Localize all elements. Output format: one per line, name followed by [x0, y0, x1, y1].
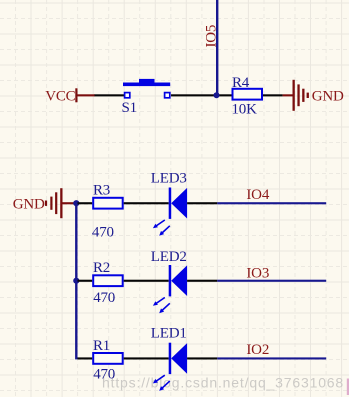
svg-text:IO2: IO2	[246, 342, 269, 358]
switch S1	[122, 79, 171, 116]
LED1 light arrows	[156, 375, 170, 388]
resistor R3	[92, 183, 123, 241]
svg-text:S1: S1	[122, 100, 137, 116]
wire LED1 right pin	[187, 357, 217, 359]
net label IO5	[203, 25, 219, 48]
net label IO3	[246, 266, 269, 282]
svg-text:GND: GND	[312, 88, 344, 104]
LED2	[151, 249, 187, 296]
power port GND right	[283, 80, 344, 111]
svg-text:IO3: IO3	[246, 266, 269, 282]
wire S1 to R4	[171, 94, 232, 96]
wire R4 to GND	[263, 94, 283, 96]
svg-text:470: 470	[92, 225, 114, 241]
svg-text:GND: GND	[13, 197, 45, 213]
wire LED3 right pin	[187, 202, 217, 204]
LED3	[151, 171, 187, 219]
resistor R4	[232, 75, 263, 118]
wire bus to R3	[78, 202, 93, 204]
wire LED2 right pin	[187, 280, 217, 282]
svg-text:VCC: VCC	[45, 88, 75, 104]
wire IO5 vertical	[216, 0, 218, 95]
wire bus to R1	[78, 357, 93, 359]
wire net IO3	[217, 280, 326, 282]
wire VCC to S1	[95, 94, 125, 96]
resistor R2	[93, 260, 123, 306]
junction row 1	[73, 200, 79, 206]
svg-text:LED3: LED3	[151, 171, 187, 187]
LED2 light arrows	[156, 298, 170, 311]
svg-text:10K: 10K	[232, 101, 258, 117]
watermark pink mark bottom-right	[347, 379, 349, 396]
net label IO2	[246, 342, 269, 358]
svg-text:R3: R3	[93, 183, 110, 199]
wire bus to R2	[78, 280, 93, 282]
svg-text:https://blog.csdn.net/qq_37631: https://blog.csdn.net/qq_37631068	[102, 375, 343, 391]
resistor R1	[93, 338, 123, 383]
wire R2 to LED2	[124, 280, 169, 282]
wire net IO2	[217, 357, 326, 359]
watermark text	[102, 375, 343, 391]
wire GND bus vertical	[75, 202, 77, 359]
wire R3 to LED3	[124, 202, 169, 204]
LED1	[151, 326, 187, 375]
power port VCC	[45, 88, 95, 104]
svg-text:R4: R4	[232, 75, 250, 91]
LED3 light arrows	[156, 220, 170, 233]
svg-text:LED1: LED1	[151, 326, 187, 342]
power port GND left	[13, 188, 77, 218]
svg-text:R1: R1	[93, 338, 110, 354]
svg-text:IO4: IO4	[246, 187, 269, 203]
svg-text:LED2: LED2	[151, 249, 187, 265]
net label IO4	[246, 187, 269, 203]
svg-text:IO5: IO5	[203, 25, 219, 48]
svg-text:470: 470	[93, 366, 115, 382]
junction at IO5	[214, 92, 220, 98]
wire R1 to LED1	[124, 357, 169, 359]
wire net IO4	[217, 202, 326, 204]
svg-text:R2: R2	[93, 260, 110, 276]
svg-text:470: 470	[93, 290, 115, 306]
junction row 2	[73, 278, 79, 284]
